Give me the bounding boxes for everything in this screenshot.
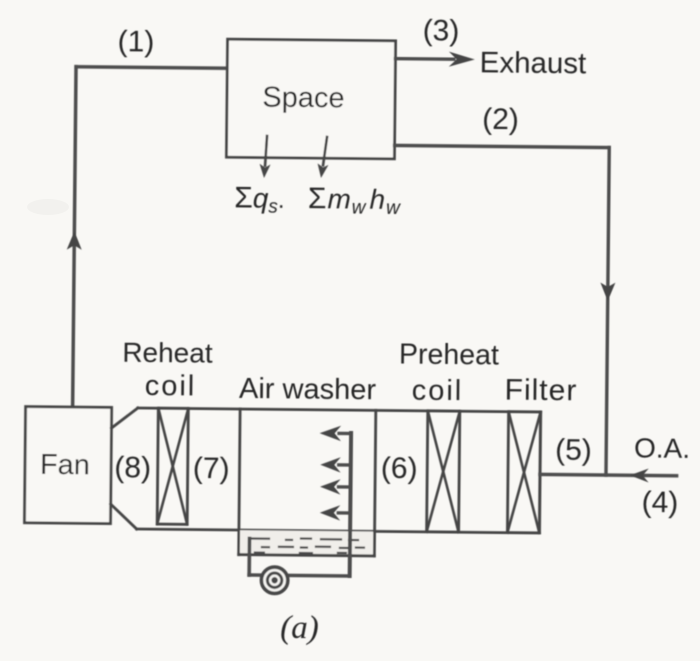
air washer right wall bbox=[374, 410, 375, 556]
svg-text:(3): (3) bbox=[423, 14, 460, 47]
svg-text:(6): (6) bbox=[381, 452, 418, 485]
svg-text:coil: coil bbox=[145, 370, 197, 403]
tank bottom bbox=[239, 555, 375, 556]
wire exhaust stub (3) bbox=[395, 57, 453, 61]
spray arrow 3 bbox=[338, 511, 350, 515]
space box bbox=[226, 39, 395, 159]
spray riser pipe bbox=[350, 433, 351, 576]
spray top arm bbox=[339, 432, 351, 436]
svg-text:(7): (7) bbox=[193, 452, 230, 485]
filter box bbox=[507, 412, 540, 533]
arrow up on supply wire bbox=[67, 231, 82, 250]
wire return duct (2) vertical bbox=[606, 148, 609, 475]
scan smudge left bbox=[27, 199, 69, 215]
svg-text:Filter: Filter bbox=[505, 374, 578, 408]
air washer left wall bbox=[239, 409, 240, 555]
svg-text:Air washer: Air washer bbox=[239, 373, 377, 406]
arrowhead outside air bbox=[630, 468, 649, 482]
svg-text:(2): (2) bbox=[482, 103, 519, 136]
svg-text:Σqs.: Σqs. bbox=[234, 181, 285, 218]
wire supply duct (1) horizontal bbox=[76, 67, 227, 69]
duct top wall bbox=[138, 408, 541, 412]
fan outlet transition bottom bbox=[110, 504, 136, 529]
pump suction pipe bbox=[247, 539, 251, 575]
svg-text:(8): (8) bbox=[114, 451, 151, 484]
arrow down on return wire bbox=[600, 282, 615, 301]
svg-text:Reheat: Reheat bbox=[122, 337, 213, 369]
heat gain arrow q bbox=[265, 136, 267, 166]
svg-text:Preheat: Preheat bbox=[399, 338, 499, 371]
spray arrow 2 bbox=[339, 485, 351, 489]
moisture gain arrow m bbox=[323, 137, 327, 165]
svg-text:(1): (1) bbox=[117, 25, 154, 58]
duct bottom wall bbox=[137, 529, 540, 533]
svg-text:O.A.: O.A. bbox=[634, 432, 690, 464]
svg-text:(5): (5) bbox=[555, 434, 592, 467]
wire return duct (2) horizontal bbox=[395, 145, 610, 147]
svg-text:(4): (4) bbox=[642, 486, 679, 519]
svg-text:Fan: Fan bbox=[40, 449, 90, 481]
svg-text:Space: Space bbox=[262, 82, 345, 115]
spray arrow 1 bbox=[339, 463, 351, 467]
water surface dashes bbox=[250, 538, 364, 554]
wire supply duct (1) vertical bbox=[73, 67, 76, 408]
fan box bbox=[24, 407, 111, 524]
reheat coil box bbox=[157, 408, 188, 524]
pump bbox=[261, 567, 288, 594]
arrowhead exhaust bbox=[449, 52, 475, 67]
outside air wire bbox=[540, 474, 677, 475]
preheat coil box bbox=[427, 411, 460, 532]
washer sump tank fill bbox=[240, 530, 373, 554]
fan outlet transition top bbox=[111, 408, 137, 429]
svg-text:Exhaust: Exhaust bbox=[480, 46, 587, 80]
pump discharge pipe bbox=[249, 575, 349, 576]
duct right end wall bbox=[539, 412, 540, 533]
svg-text:coil: coil bbox=[412, 375, 464, 408]
svg-text:(a): (a) bbox=[280, 610, 319, 646]
